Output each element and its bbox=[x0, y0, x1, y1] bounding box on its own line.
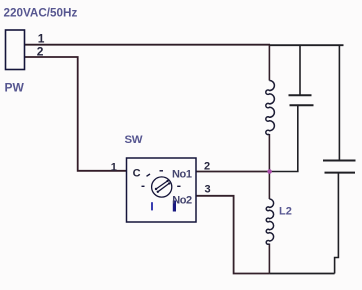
svg-text:C: C bbox=[133, 168, 141, 180]
svg-text:1: 1 bbox=[111, 161, 117, 173]
svg-text:2: 2 bbox=[37, 44, 44, 58]
svg-text:3: 3 bbox=[205, 183, 211, 195]
svg-text:220VAC/50Hz: 220VAC/50Hz bbox=[4, 6, 78, 19]
svg-text:No1: No1 bbox=[172, 168, 192, 180]
svg-text:No2: No2 bbox=[172, 195, 192, 207]
svg-text:SW: SW bbox=[125, 134, 143, 146]
svg-text:2: 2 bbox=[204, 160, 210, 172]
svg-text:PW: PW bbox=[5, 81, 25, 95]
svg-text:L2: L2 bbox=[279, 206, 292, 218]
